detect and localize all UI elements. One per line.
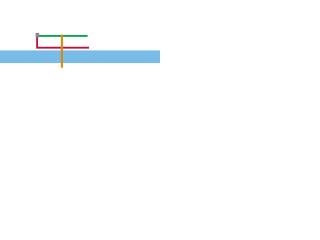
green route line [38,35,87,37]
station marker (gray square) [36,33,39,37]
river band [0,50,160,63]
orange route line (bridge crossing) [61,35,63,67]
red route line [37,37,89,48]
